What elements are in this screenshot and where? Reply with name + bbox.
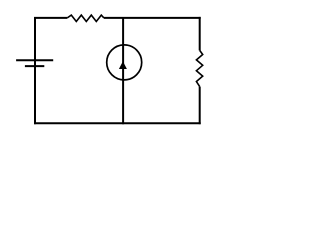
wire left branch xyxy=(34,18,36,124)
wire right branch upper lead xyxy=(199,17,201,51)
resistor R2 (right vertical zigzag) xyxy=(196,50,202,86)
wire right branch lower lead xyxy=(199,87,201,125)
wire middle branch xyxy=(122,17,124,124)
battery V1 long plate xyxy=(16,59,53,61)
battery V1 short plate xyxy=(25,65,44,67)
current source I1 arrowhead xyxy=(119,61,127,69)
wire top-left lead xyxy=(34,17,67,19)
wire bottom xyxy=(34,122,201,124)
current source I1 circle xyxy=(107,45,142,80)
resistor R1 (top horizontal zigzag) xyxy=(67,15,104,21)
wire top-right segment xyxy=(104,17,201,19)
